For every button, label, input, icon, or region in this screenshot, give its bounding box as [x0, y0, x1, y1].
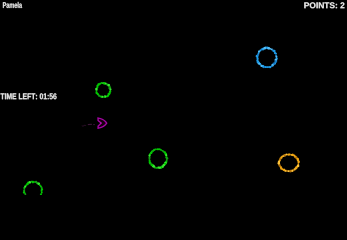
orange dotted circle (target bubble), bottom right	[277, 153, 299, 172]
green dotted circle (target bubble), upper middle	[95, 82, 111, 98]
timer label "TIME LEFT: 01:56"	[0, 93, 56, 99]
score label "POINTS: 2"	[304, 2, 344, 8]
blue dotted circle (target bubble), top right	[256, 47, 278, 69]
green dotted circle (target bubble), lower middle	[148, 148, 168, 169]
exhaust trail dots behind player ship	[82, 124, 95, 126]
player name label "Pamela"	[3, 2, 22, 8]
green dotted circle (target bubble), bottom edge clipped	[23, 181, 43, 201]
player ship (magenta arrow/pac shape facing right)	[98, 118, 107, 128]
